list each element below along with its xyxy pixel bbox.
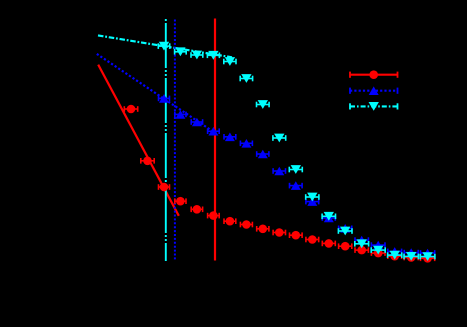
red solid fit line — [98, 65, 179, 216]
legend blue entry — [350, 90, 398, 92]
legend red entry — [350, 74, 398, 76]
cyan dash-dot vertical line — [165, 19, 167, 261]
blue dotted fit line — [97, 54, 216, 134]
cyan dash-dot fit line — [98, 35, 232, 57]
legend cyan entry — [350, 105, 398, 107]
red circle series with error bars — [124, 108, 137, 110]
blue up-triangle series with error bars — [159, 97, 170, 99]
red solid vertical line — [214, 19, 216, 261]
blue dotted vertical line — [174, 20, 176, 261]
cyan down-triangle series with error bars — [158, 45, 169, 47]
